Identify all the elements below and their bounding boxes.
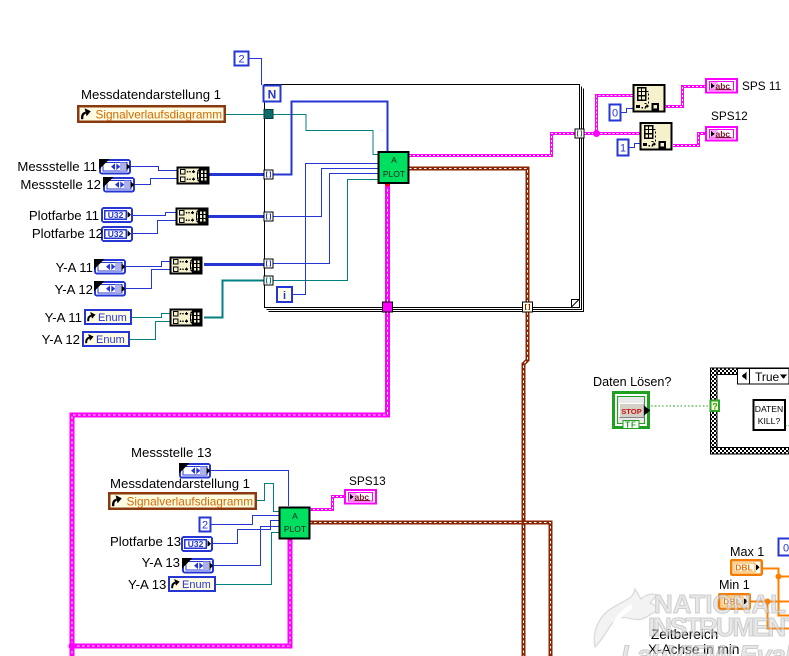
svg-text:SPS12: SPS12 (711, 109, 748, 123)
junction dot Min (765, 599, 771, 605)
svg-text:Daten Lösen?: Daten Lösen? (593, 375, 671, 389)
tunnel array 2 (264, 212, 273, 221)
svg-text:Messdatendarstellung 1: Messdatendarstellung 1 (110, 476, 250, 491)
wire Signalverlaufsdiagramm 2 to PLOT2 (256, 484, 279, 512)
svg-text:2: 2 (202, 520, 208, 532)
wire build array 2 to tunnel 2 (thick) (208, 215, 264, 218)
svg-text:Messstelle 11: Messstelle 11 (17, 159, 97, 174)
svg-text:?: ? (712, 402, 718, 412)
svg-text:LabVIEW Evaluatio: LabVIEW Evaluatio (621, 640, 789, 656)
svg-text:SPS 11: SPS 11 (742, 79, 781, 93)
svg-text:Y-A 11: Y-A 11 (45, 310, 82, 325)
svg-text:INSTRUMENT: INSTRUMENT (648, 612, 789, 642)
svg-text:A: A (391, 155, 397, 165)
wire magenta from right tunnel to junction and index arrays (584, 96, 640, 134)
for-loop frame (265, 85, 584, 312)
wire tunnel 3 to PLOT input (272, 174, 378, 264)
svg-text:Plotfarbe 11: Plotfarbe 11 (29, 208, 99, 223)
wire Messstelle 12 to build array (134, 179, 177, 185)
control Y-A 12 (ring) (94, 281, 125, 296)
wire tunnel 2 to PLOT input (272, 169, 378, 217)
index array 2 (641, 123, 672, 150)
wire tunnel 4 to PLOT input (teal) (272, 180, 378, 281)
build array 1 (Messstelle) (178, 168, 209, 184)
refnum Signalverlaufsdiagramm (bottom) (109, 493, 256, 509)
wire Plotfarbe 11 to build array 2 (133, 213, 176, 216)
svg-text:Y-A 12: Y-A 12 (55, 282, 93, 297)
constant 0 (index) (610, 105, 621, 121)
svg-text:Messstelle 13: Messstelle 13 (131, 445, 212, 460)
tunnel array 4 (teal) (264, 276, 273, 285)
wire index array 1 to SPS 11 (664, 87, 705, 107)
svg-text:Y-A 13: Y-A 13 (142, 555, 180, 570)
red coercion dot PLOT1 (385, 182, 390, 187)
case structure border (checkered) (711, 368, 789, 454)
build array 2 (Plotfarbe) (177, 209, 208, 225)
wire magenta PLOT1 out to right tunnel (409, 134, 575, 156)
control Messstelle 13 (ring) (179, 463, 210, 478)
svg-text:Y-A 12: Y-A 12 (42, 332, 80, 347)
tunnel refnum (teal filled) (264, 110, 273, 119)
boolean STOP button (Daten Lösen?) (614, 393, 651, 430)
tunnel right (magenta array out) (575, 129, 584, 138)
wire magenta PLOT1 bottom to tunnel (385, 184, 390, 302)
svg-text:N: N (268, 88, 277, 102)
control Messstelle 12 (ring) (103, 177, 134, 192)
tunnel array 3 (264, 259, 273, 268)
svg-text:Enum: Enum (98, 312, 127, 324)
junction dot magenta (593, 130, 600, 137)
wire i terminal to PLOT (292, 164, 378, 295)
wire build array 3 to tunnel 3 (thick) (204, 263, 264, 266)
svg-text:DATEN: DATEN (755, 404, 784, 414)
svg-text:Messstelle 12: Messstelle 12 (20, 177, 101, 192)
control Y-A 12 Enum (83, 332, 129, 346)
tunnel bottom brown (523, 302, 533, 312)
refnum Signalverlaufsdiagramm (top) (78, 106, 225, 122)
i iteration terminal (277, 287, 292, 302)
svg-text:1: 1 (620, 143, 626, 155)
wire Plotfarbe 12 to build array 2 (133, 221, 176, 234)
case selector ? terminal (711, 401, 720, 412)
indicator SPS12 (706, 127, 737, 141)
svg-text:TF: TF (625, 421, 637, 430)
svg-text:PLOT: PLOT (383, 169, 405, 179)
wire Signalverlaufsdiagramm to tunnel (226, 114, 264, 116)
wire green dotted STOP to case selector (651, 405, 710, 407)
svg-text:PLOT: PLOT (284, 524, 306, 534)
wire brown PLOT1 out down to bottom tunnel (409, 169, 528, 303)
wire green dotted DATEN KILL out (785, 425, 789, 427)
wire Enum 11 to build array 4 (132, 314, 170, 318)
junction dot Max (776, 574, 782, 580)
wire 2 to N (249, 59, 262, 86)
constant 2 (top) (235, 52, 249, 66)
wire brown PLOT2 long right and down (309, 523, 551, 656)
wire index array 2 to SPS12 (673, 134, 705, 146)
red coercion dot PLOT2 (288, 535, 293, 540)
wire 0 constant to index array 1 (621, 109, 633, 113)
wire Y-A 13 Enum to PLOT2 (216, 533, 279, 585)
svg-text:0: 0 (783, 543, 789, 555)
svg-text:U32: U32 (108, 210, 124, 220)
constant 1 (index) (618, 140, 629, 156)
wire Y-A 13 to PLOT2 (214, 527, 279, 566)
wire 1 constant to index array 2 (629, 144, 640, 148)
wire 2 constant to PLOT2 (211, 516, 279, 525)
node DATEN KILL? (754, 400, 786, 430)
wire build array 4 to tunnel 4 (thick teal) (204, 281, 264, 318)
loop fold corner (572, 300, 580, 308)
wire PLOT2 to SPS13 (309, 497, 344, 510)
wire Messstelle 11 to build array (130, 167, 177, 171)
control Y-A 11 (ring) (94, 259, 125, 274)
control Y-A 13 (ring) (182, 558, 213, 573)
svg-text:Plotfarbe 12: Plotfarbe 12 (32, 226, 103, 241)
op-amp: subVI A PLOT 1 (379, 152, 409, 183)
indicator SPS13 (345, 490, 376, 504)
index array 1 (634, 85, 665, 112)
svg-text:True: True (755, 370, 780, 384)
build array 3 (Y-A) (171, 258, 202, 274)
wire Y-A 12 to build array 3 (124, 270, 170, 289)
N count terminal (264, 86, 281, 102)
control Max 1 (DBL) (731, 560, 762, 575)
svg-text:Y-A 13: Y-A 13 (128, 577, 166, 592)
control Plotfarbe 11 (U32) (102, 208, 132, 222)
control Plotfarbe 13 (U32) (182, 537, 212, 551)
svg-text:STOP: STOP (621, 407, 642, 416)
svg-text:Messdatendarstellung 1: Messdatendarstellung 1 (81, 87, 221, 102)
svg-text:KILL?: KILL? (758, 416, 781, 426)
svg-text:Y-A 11: Y-A 11 (56, 260, 93, 275)
svg-text:DBL: DBL (735, 563, 752, 573)
case selector label True (738, 369, 789, 385)
control Y-A 11 Enum (85, 310, 131, 324)
wire refnum inside loop to PLOT (272, 115, 378, 155)
wire Enum 12 to build array 4 (130, 322, 170, 340)
svg-text:2: 2 (238, 54, 244, 66)
wire build array 1 to tunnel (thick) (209, 173, 264, 176)
control Plotfarbe 12 (U32) (102, 227, 132, 241)
control Messstelle 11 (ring) (99, 159, 130, 174)
wire Y-A 11 to build array 3 (125, 262, 170, 267)
svg-text:SPS13: SPS13 (349, 474, 386, 488)
svg-text:Plotfarbe 13: Plotfarbe 13 (110, 534, 181, 549)
tunnel bottom magenta (filled) (383, 302, 393, 312)
wire tunnel1 up-and-over to PLOT top (thick) (271, 102, 388, 175)
junction dot magenta bottom (69, 643, 76, 650)
control Min 1 (DBL) (719, 594, 750, 609)
wire Messstelle 13 to PLOT2 top (210, 471, 289, 507)
subVI A PLOT 2 (280, 508, 310, 539)
build array 4 (Y-A Enum) (171, 310, 202, 326)
svg-text:0: 0 (612, 108, 618, 120)
wire Max 1 orange (763, 569, 789, 616)
wire big magenta loop (tunnel down, across, down, to PLOT2) (72, 312, 388, 656)
constant 0 (right edge, cut) (779, 539, 789, 556)
wire brown below loop1 to bottom edge (524, 312, 528, 656)
NI eagle logo (594, 589, 658, 647)
tunnel array 1 (264, 170, 273, 179)
control Y-A 13 Enum (169, 577, 215, 591)
wire Plotfarbe 13 to PLOT2 (213, 521, 279, 544)
wire Min 1 orange (749, 602, 789, 629)
svg-text:A: A (292, 511, 298, 521)
constant 2 (bottom) (200, 518, 211, 532)
indicator SPS 11 (706, 79, 737, 93)
svg-text:Signalverlaufsdiagramm: Signalverlaufsdiagramm (96, 107, 223, 121)
svg-text:Max 1: Max 1 (730, 545, 764, 559)
svg-text:i: i (283, 290, 286, 302)
